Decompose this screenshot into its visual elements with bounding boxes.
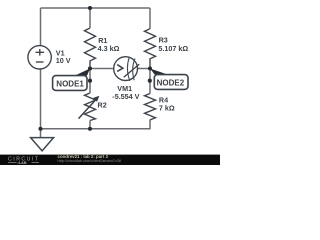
R2 wiper arrow — [79, 100, 96, 119]
wire R3 top lead — [149, 8, 151, 29]
resistor R4 — [145, 94, 156, 120]
wire R1 top lead — [89, 8, 91, 28]
wire R2 bottom lead — [89, 121, 91, 129]
node flag NODE1 — [53, 69, 90, 91]
svg-text:NODE2: NODE2 — [157, 79, 185, 88]
svg-text:NODE1: NODE1 — [56, 80, 84, 89]
junction NODE1 flag attach — [88, 79, 92, 83]
svg-text:4.3 kΩ: 4.3 kΩ — [98, 44, 120, 53]
svg-text:condrev21 : lab 2: part 2: condrev21 : lab 2: part 2 — [58, 154, 109, 159]
footer bar — [0, 155, 220, 165]
junction NODE2 flag attach — [148, 79, 152, 83]
wire VM1 right — [138, 68, 151, 70]
resistor R3 — [145, 29, 156, 69]
resistor R1 — [85, 28, 96, 69]
junction NODE1 (R1/VM1/R2) — [88, 66, 92, 70]
svg-text:5.107 kΩ: 5.107 kΩ — [158, 44, 188, 53]
junction top rail / R1 — [88, 6, 92, 10]
svg-text:10 V: 10 V — [56, 56, 71, 65]
node flag NODE2 — [150, 69, 188, 90]
label V1 value — [56, 48, 71, 65]
ground — [31, 138, 54, 151]
wire NODE1 vertical segment — [89, 69, 91, 94]
label R4 value — [159, 95, 175, 112]
junction NODE2 (R3/VM1/R4) — [148, 66, 152, 70]
wire V1 top lead — [40, 8, 42, 46]
resistor R2 (variable) — [85, 93, 96, 121]
svg-text:R2: R2 — [98, 100, 107, 109]
wire V1 bottom lead to ground rail — [40, 69, 42, 138]
wire top rail — [41, 7, 151, 9]
CircuitLab logo — [8, 156, 40, 165]
svg-text:http://circuitlab.com/c/dml2sm: http://circuitlab.com/c/dml2smam7c38 — [58, 159, 122, 163]
voltage source V1 — [28, 46, 51, 69]
label R3 value — [158, 36, 188, 54]
junction bottom rail / R2 — [88, 127, 92, 131]
voltmeter VM1 — [114, 57, 140, 81]
svg-text:-5.554 V: -5.554 V — [112, 92, 139, 101]
label R1 value — [98, 36, 120, 53]
wire VM1 left — [90, 68, 114, 70]
wire R4 bottom lead — [149, 120, 151, 129]
label VM1 value — [112, 84, 139, 101]
wire bottom rail — [41, 128, 151, 130]
svg-text:▪LAB: ▪LAB — [18, 161, 27, 165]
svg-text:7 kΩ: 7 kΩ — [159, 104, 175, 113]
junction bottom rail / ground — [38, 127, 42, 131]
wire NODE2 vertical segment — [149, 69, 151, 94]
